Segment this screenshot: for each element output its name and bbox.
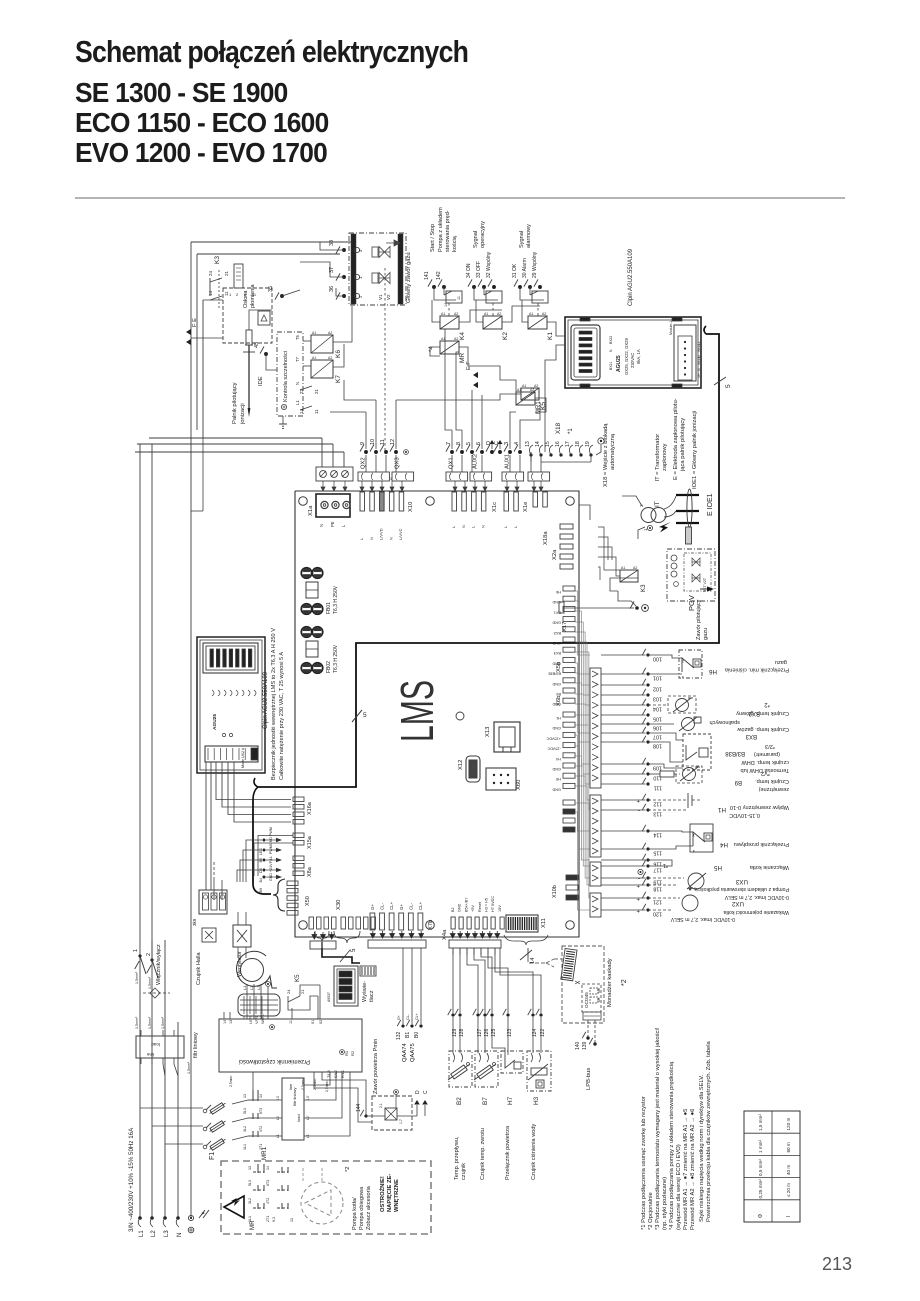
sensor BX3: [648, 723, 674, 725]
svg-text:1,7: 1,7: [399, 1119, 403, 1124]
svg-text:Włączanie kotła: Włączanie kotła: [749, 864, 789, 870]
svg-text:Φ: Φ: [758, 1214, 764, 1218]
svg-text:02: 02: [319, 1020, 323, 1024]
svg-text:Pompa obiegowa: Pompa obiegowa: [359, 1186, 365, 1230]
svg-text:A2: A2: [454, 312, 458, 316]
svg-text:*2 Opcjonalnie: *2 Opcjonalnie: [648, 1192, 654, 1230]
contactor MR contacts in box: [253, 1171, 264, 1173]
svg-text:2,5mm²: 2,5mm²: [325, 1080, 329, 1092]
display module AGU25 outline: [197, 637, 265, 773]
terminal 45: [264, 352, 268, 356]
X11 brace: [504, 935, 548, 945]
svg-text:B4: B4: [259, 878, 263, 882]
X50 brace: [273, 879, 285, 911]
svg-text:GND: GND: [552, 787, 561, 791]
svg-text:CL-: CL-: [408, 902, 413, 910]
strip X18 right: [528, 472, 550, 481]
svg-text:L/VVD: L/VVD: [379, 528, 384, 540]
sensor box H7: [501, 1051, 523, 1073]
display bus thick wire: [322, 948, 360, 963]
svg-text:*4 Podczas podłączania pompy z: *4 Podczas podłączania pompy z układem s…: [669, 1061, 675, 1230]
terminal block 3k9: [199, 890, 227, 914]
X30 brace wire: [315, 931, 329, 942]
svg-text:GND: GND: [552, 767, 561, 771]
svg-text:V1T V2T: V1T V2T: [703, 577, 707, 592]
X11 bus slash 14: [527, 948, 529, 958]
svg-text:-: -: [638, 875, 640, 881]
svg-text:144: 144: [356, 1103, 362, 1112]
module left connector block: [571, 325, 600, 380]
svg-text:108: 108: [653, 743, 662, 749]
svg-text:X1e: X1e: [523, 502, 529, 512]
svg-text:L: L: [451, 525, 456, 528]
valve V1 V2 symbols: [379, 247, 390, 258]
svg-text:4: 4: [514, 442, 520, 445]
svg-text:Przewód MR A1 → ●7 zmienić na: Przewód MR A1 → ●7 zmienić na MR A1 → ●5: [683, 1109, 689, 1230]
svg-text:Bezpiecznik jednostki wewnętrz: Bezpiecznik jednostki wewnętrznej LMS to…: [271, 628, 277, 780]
sensor B9: [648, 773, 660, 775]
page number: [822, 1254, 852, 1275]
svg-text:132: 132: [396, 1031, 402, 1040]
sensor BX2: [648, 704, 668, 706]
svg-text:IT: IT: [654, 501, 661, 507]
svg-text:X18 = Wejście z blokadą: X18 = Wejście z blokadą: [603, 423, 609, 487]
svg-text:1: 1: [229, 292, 232, 297]
svg-text:2: 2: [681, 659, 684, 664]
svg-text:24: 24: [208, 270, 213, 276]
power rail L1: [139, 444, 141, 1218]
svg-text:D: D: [415, 1090, 421, 1094]
svg-text:IT = Transformator: IT = Transformator: [655, 434, 661, 482]
svg-text:QX3: QX3: [395, 457, 401, 469]
svg-text:142: 142: [436, 271, 442, 280]
svg-text:load: load: [296, 1114, 301, 1122]
second contact column: [277, 1171, 288, 1173]
svg-text:5: 5: [363, 712, 367, 719]
svg-text:119: 119: [653, 879, 662, 885]
strip AUX1: [502, 472, 524, 481]
svg-text:E IOE1: E IOE1: [707, 493, 714, 516]
svg-text:113: 113: [653, 811, 662, 817]
wires fan to hall: [243, 1016, 245, 1019]
X4a fan to sensors: [452, 948, 454, 1013]
svg-text:114: 114: [653, 832, 662, 838]
svg-text:GND: GND: [552, 661, 561, 665]
svg-text:BX2: BX2: [748, 710, 760, 716]
svg-text:K6: K6: [335, 350, 342, 358]
relay K3 coil: [620, 570, 638, 582]
wire 11 up: [291, 1008, 293, 1019]
module AGU2.550A109 outline: [565, 317, 701, 388]
fuse FB02: [301, 627, 311, 637]
svg-text:Wyświe-: Wyświe-: [362, 981, 368, 1002]
strip AUX2: [470, 472, 492, 481]
svg-text:X1c: X1c: [492, 502, 498, 512]
terminal row 9-12: [364, 450, 368, 454]
svg-text:R/L1: R/L1: [341, 1070, 345, 1078]
connector X4a pins: [451, 917, 455, 929]
svg-text:N: N: [319, 524, 324, 527]
H1 wire 113: [648, 809, 688, 811]
svg-text:H6: H6: [556, 590, 561, 594]
pump wires dashed: [302, 1168, 304, 1182]
connector X8a: [293, 856, 304, 861]
svg-text:5: 5: [725, 384, 732, 388]
svg-text:B1: B1: [405, 1032, 411, 1038]
svg-text:(wyłącznie dla wersji ECO i EV: (wyłącznie dla wersji ECO i EVO): [676, 1144, 682, 1230]
svg-text:6T3: 6T3: [266, 1180, 270, 1186]
wires QX strips to board pins: [360, 481, 364, 491]
svg-text:filtr liniowy: filtr liniowy: [193, 1032, 199, 1058]
relay K7: [311, 360, 333, 378]
svg-text:T6,3 H 250V: T6,3 H 250V: [333, 644, 339, 673]
svg-text:B0: B0: [414, 1032, 420, 1038]
wires pilot section: [203, 299, 223, 301]
contact near 35: [282, 290, 300, 296]
module right connector: [674, 325, 696, 381]
svg-text:14: 14: [223, 1020, 227, 1024]
svg-text:38: 38: [329, 240, 335, 246]
H5 wires: [648, 860, 672, 866]
svg-text:A2: A2: [328, 356, 332, 360]
svg-text:czujnik temp. DHW: czujnik temp. DHW: [741, 759, 789, 765]
connector X1e pins: [504, 492, 509, 511]
svg-text:0,5 mm²: 0,5 mm²: [758, 1159, 763, 1176]
svg-text:S/L2: S/L2: [334, 1070, 338, 1078]
thick wire to X50: [252, 800, 254, 884]
svg-text:GX25, GX22, GX29: GX25, GX22, GX29: [624, 338, 629, 375]
svg-text:14: 14: [299, 408, 304, 414]
valve terminal dots 38 37 36: [342, 248, 346, 252]
svg-text:6T3: 6T3: [259, 1108, 263, 1114]
svg-text:NAPIĘCIE ZE-: NAPIĘCIE ZE-: [387, 1174, 393, 1212]
terminal 144: [364, 1114, 367, 1117]
electrode flame ellipse: [687, 489, 692, 527]
svg-text:29 Wspólny: 29 Wspólny: [532, 251, 538, 278]
svg-text:FILL: FILL: [269, 856, 273, 863]
svg-text:X18: X18: [555, 422, 562, 434]
connector X16a: [293, 797, 304, 802]
svg-text:czujnik: czujnik: [461, 1163, 467, 1180]
svg-text:L: L: [471, 525, 476, 528]
wire to hall 3k9 top: [213, 880, 215, 900]
connector X2a: [560, 524, 573, 529]
svg-text:R1: R1: [344, 1050, 349, 1056]
svg-text:33 OFF: 33 OFF: [476, 261, 482, 278]
svg-text:1,5mm²: 1,5mm²: [187, 1061, 191, 1074]
svg-text:B9: B9: [556, 692, 561, 696]
svg-text:12: 12: [390, 439, 396, 445]
svg-text:A2: A2: [497, 312, 501, 316]
svg-text:21: 21: [224, 270, 229, 276]
svg-text:zewnętrznej: zewnętrznej: [759, 786, 789, 792]
svg-text:K2: K2: [502, 332, 509, 340]
svg-text:1,5mm²: 1,5mm²: [148, 976, 152, 989]
svg-text:9,3: 9,3: [272, 1217, 276, 1222]
svg-text:CL+: CL+: [418, 901, 423, 910]
svg-text:5: 5: [351, 948, 357, 952]
svg-text:1,5mm²: 1,5mm²: [161, 1016, 165, 1029]
svg-text:A1: A1: [529, 312, 533, 316]
svg-text:H5: H5: [714, 864, 722, 871]
hall sensor block: [238, 994, 280, 1016]
svg-text:K7: K7: [335, 375, 342, 383]
svg-text:Zawór pilotujący: Zawór pilotujący: [696, 599, 702, 640]
wires D C arrows top: [491, 444, 493, 449]
svg-text:H3 = H5: H3 = H5: [485, 898, 489, 912]
terminal row 7 8 5 6 D C 3 4: [450, 450, 454, 454]
svg-text:Wpływ zewnętrzny 0-10: Wpływ zewnętrzny 0-10: [730, 804, 789, 810]
relay K2: [483, 316, 502, 329]
svg-text:sterowania pręd-: sterowania pręd-: [445, 210, 451, 252]
relay K5 small: [521, 388, 539, 400]
svg-text:X13: X13: [485, 727, 491, 737]
H1 influence symbol: [648, 799, 688, 801]
svg-text:Clpin AGU2.550A109: Clpin AGU2.550A109: [263, 671, 269, 729]
svg-text:E = Elektroda zapłonowa pilo: E = Elektroda zapłonowa pilotu-: [673, 398, 679, 480]
wires MR1 to filter2: [258, 1099, 282, 1101]
wire main top horizontal: [191, 241, 352, 243]
power rail L2: [151, 444, 153, 1218]
svg-text:filtr liniowy: filtr liniowy: [292, 1088, 297, 1106]
svg-text:A1: A1: [441, 312, 445, 316]
svg-text:AGU25: AGU25: [212, 714, 218, 730]
svg-text:AUX2: AUX2: [473, 454, 479, 469]
wires X4a down fan: [452, 948, 454, 955]
svg-text:11: 11: [289, 1020, 293, 1024]
svg-text:3L2: 3L2: [243, 1126, 247, 1132]
svg-text:102: 102: [653, 686, 662, 692]
terminals 141 142: [432, 285, 436, 289]
main switch contacts: [138, 954, 141, 957]
svg-text:A2: A2: [633, 566, 637, 570]
cascade manager box (OCI345): [562, 946, 604, 1023]
frequency converter box: [219, 1019, 362, 1072]
svg-text:CL-: CL-: [380, 902, 385, 910]
X7b arrow bar: [368, 940, 426, 948]
svg-text:X50: X50: [305, 896, 311, 906]
svg-text:GND: GND: [458, 903, 462, 912]
contact box alarm: [520, 287, 544, 300]
line load filter box: [136, 1036, 184, 1058]
svg-text:Clpin AGU2.550A109: Clpin AGU2.550A109: [628, 248, 634, 306]
svg-text:PWM: PWM: [269, 845, 273, 854]
svg-text:13: 13: [248, 1166, 252, 1170]
svg-text:IDE: IDE: [258, 376, 264, 386]
wires AGU module to terminal row 13-19: [545, 345, 565, 452]
svg-text:A1: A1: [312, 356, 316, 360]
connector X15a: [293, 833, 304, 838]
terminals 31 30 29: [518, 285, 522, 289]
wires relay row to module: [459, 310, 502, 322]
svg-text:A2: A2: [328, 331, 332, 335]
small relay box below: [202, 928, 216, 942]
svg-text:115: 115: [653, 850, 662, 856]
svg-text:Przełącznik powietrza: Przełącznik powietrza: [505, 1125, 511, 1180]
power terminals bottom: [138, 1216, 142, 1220]
contact box operational: [474, 287, 498, 300]
svg-text:X8a: X8a: [307, 866, 313, 877]
svg-text:-15VDC: -15VDC: [547, 747, 561, 751]
svg-text:spalinowych: spalinowych: [710, 719, 740, 725]
svg-text:B7: B7: [482, 1097, 489, 1105]
svg-text:QX1: QX1: [449, 457, 455, 469]
svg-text:T/L3: T/L3: [327, 1070, 331, 1078]
svg-text:N: N: [295, 382, 300, 385]
svg-text:A2: A2: [542, 312, 546, 316]
svg-text:10: 10: [370, 439, 376, 445]
svg-text:141: 141: [424, 271, 430, 280]
hall cross box: [233, 925, 251, 947]
svg-text:L3: L3: [164, 1230, 170, 1237]
sensor fan terminal dots: [646, 653, 649, 656]
svg-text:7: 7: [446, 442, 452, 445]
svg-text:Zawór powietrza Pmin: Zawór powietrza Pmin: [373, 1039, 379, 1094]
svg-text:X18a: X18a: [543, 531, 549, 545]
svg-text:B9: B9: [734, 779, 742, 785]
svg-text:13: 13: [525, 441, 531, 447]
connector X1a: [316, 494, 350, 517]
svg-text:109: 109: [653, 765, 662, 771]
svg-text:30 Alarm: 30 Alarm: [522, 258, 528, 278]
relay contact 14 11 lower: [300, 406, 312, 410]
svg-text:WNĘTRZNE: WNĘTRZNE: [394, 1179, 400, 1212]
sensor connector block 4: [590, 893, 601, 917]
svg-text:F1: F1: [209, 1152, 216, 1160]
svg-text:0-10VDC Imax. 2,7 m SELV: 0-10VDC Imax. 2,7 m SELV: [724, 894, 789, 900]
svg-text:-: -: [638, 807, 640, 813]
svg-text:Module-1: Module-1: [669, 321, 673, 335]
svg-text:11: 11: [314, 409, 319, 414]
svg-text:11: 11: [252, 292, 257, 297]
warning triangle: [224, 1196, 244, 1218]
H4 wires: [648, 831, 693, 832]
svg-text:BX1: BX1: [554, 610, 561, 614]
flame control delta box: [258, 311, 270, 325]
svg-text:BX2: BX2: [554, 631, 561, 635]
terminal grounding symbol: [404, 450, 409, 455]
svg-text:100: 100: [653, 656, 662, 662]
svg-text:Wskazanie pojemności kotła: Wskazanie pojemności kotła: [723, 909, 789, 915]
connector X12: [466, 756, 480, 782]
svg-text:Czujnik ciśnienia wody: Czujnik ciśnienia wody: [531, 1124, 537, 1180]
svg-text:PGV: PGV: [687, 595, 696, 611]
wires 13-19 bundle to module: [541, 461, 591, 463]
svg-text:T6,3 H 250V: T6,3 H 250V: [333, 585, 339, 614]
fan ground: [266, 982, 271, 987]
wires left to QX terminals: [135, 451, 344, 453]
svg-text:2T1: 2T1: [266, 1216, 270, 1222]
svg-text:+: +: [636, 895, 640, 901]
svg-text:19: 19: [585, 441, 591, 447]
svg-text:Przemiennik częstotłiwości: Przemiennik częstotłiwości: [239, 1058, 310, 1064]
svg-text:+: +: [636, 797, 640, 803]
svg-text:L2: L2: [249, 985, 254, 990]
svg-text:L: L: [513, 525, 518, 528]
contact box start/stop: [434, 287, 456, 300]
wires F1 to MR1: [232, 1100, 248, 1104]
sensor connector block 1: [590, 668, 601, 788]
svg-text:1: 1: [358, 276, 363, 279]
F E arrows: [186, 329, 191, 335]
svg-text:A1: A1: [621, 566, 625, 570]
svg-text:Czujnik temp.: Czujnik temp.: [755, 778, 789, 784]
board inner hole: [456, 712, 464, 720]
svg-text:Sygnał: Sygnał: [519, 230, 525, 248]
svg-text:22: 22: [299, 388, 304, 394]
svg-text:C: C: [423, 1090, 429, 1094]
svg-text:CL+: CL+: [415, 1013, 419, 1020]
svg-text:BX21: BX21: [609, 362, 613, 370]
svg-text:L1: L1: [295, 400, 300, 405]
PE terminal bottom: [188, 1215, 193, 1220]
svg-text:X10b: X10b: [552, 885, 558, 898]
svg-text:X16a: X16a: [307, 801, 313, 815]
relay contact 22 21 below leak box: [300, 386, 312, 390]
svg-text:106: 106: [653, 725, 662, 731]
svg-text:1,5mm²: 1,5mm²: [135, 1016, 139, 1029]
display connector: [360, 966, 376, 976]
svg-text:+5V: +5V: [471, 905, 475, 912]
header divider rule: [75, 197, 845, 199]
svg-text:X2a: X2a: [552, 549, 558, 560]
svg-text:*V2: *V2: [761, 770, 770, 776]
svg-text:A1: A1: [312, 331, 316, 335]
svg-text:zapłonowy: zapłonowy: [662, 444, 668, 471]
LPB terminals: [587, 1020, 589, 1036]
power rail L3 bottom: [164, 940, 166, 1218]
ground at leak box: [282, 416, 284, 424]
svg-text:Główny zawór gazu: Główny zawór gazu: [406, 252, 412, 303]
svg-text:L3: L3: [276, 1096, 280, 1100]
wire X17 to PGV: [564, 607, 634, 609]
connector X60: [486, 768, 516, 790]
connector X11 ribbon: [506, 915, 538, 932]
svg-text:alarmowy: alarmowy: [526, 224, 532, 248]
svg-text:B2: B2: [456, 1097, 463, 1105]
svg-text:gazu: gazu: [703, 628, 709, 640]
svg-text:BX22: BX22: [697, 343, 701, 351]
svg-text:gazu: gazu: [775, 659, 787, 665]
svg-text:Mode UX2 b: Mode UX2 b: [241, 748, 245, 768]
svg-text:LED: LED: [259, 848, 263, 855]
svg-text:3: 3: [504, 442, 510, 445]
svg-text:≤ 20 m: ≤ 20 m: [786, 1183, 791, 1197]
svg-text:M: M: [697, 368, 701, 371]
svg-text:H4: H4: [556, 757, 561, 761]
svg-text:80 m: 80 m: [786, 1142, 791, 1152]
svg-text:X7b: X7b: [428, 920, 434, 930]
svg-text:4T2: 4T2: [266, 1198, 270, 1204]
svg-text:31 OK: 31 OK: [512, 263, 518, 278]
converter pin stubs 14 13: [223, 1012, 225, 1019]
svg-text:A2: A2: [454, 337, 458, 341]
svg-text:14: 14: [535, 441, 541, 447]
svg-text:13: 13: [243, 1094, 247, 1098]
svg-text:B5x+/B7: B5x+/B7: [464, 898, 468, 912]
line filter 2 box: [282, 1078, 304, 1140]
svg-text:1L1: 1L1: [248, 1216, 252, 1222]
svg-text:X4a: X4a: [442, 929, 448, 940]
connector X7b pins: [370, 913, 375, 930]
svg-text:103: 103: [653, 696, 662, 702]
svg-text:PE: PE: [330, 521, 335, 527]
svg-text:K5: K5: [294, 974, 301, 982]
display module bottom connector: [205, 746, 258, 762]
svg-text:B9: B9: [259, 888, 263, 892]
wires hall cross box: [237, 912, 239, 925]
svg-text:HT 5VDC: HT 5VDC: [491, 896, 495, 912]
